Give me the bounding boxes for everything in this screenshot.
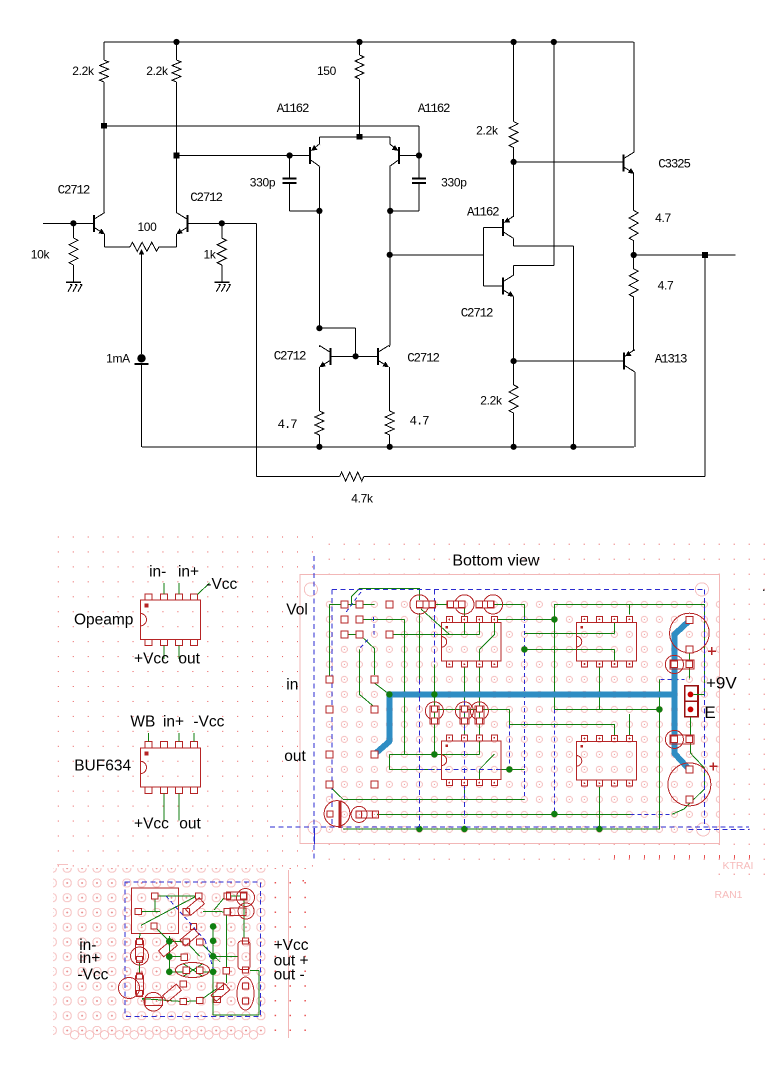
svg-text:C2712: C2712 <box>58 184 90 198</box>
svg-text:4.7: 4.7 <box>278 418 298 432</box>
svg-text:4.7: 4.7 <box>655 211 671 225</box>
svg-text:C2712: C2712 <box>407 352 439 366</box>
svg-text:C3325: C3325 <box>658 158 690 172</box>
svg-text:1mA: 1mA <box>106 352 130 366</box>
svg-text:in+: in+ <box>163 713 184 730</box>
svg-text:out: out <box>179 815 201 832</box>
svg-text:4.7: 4.7 <box>410 415 430 429</box>
svg-text:A1313: A1313 <box>655 353 687 367</box>
svg-text:+Vcc: +Vcc <box>134 650 169 667</box>
svg-text:A1162: A1162 <box>277 102 309 116</box>
svg-text:in: in <box>286 677 298 694</box>
svg-text:out -: out - <box>274 967 305 984</box>
svg-text:2.2k: 2.2k <box>72 64 95 78</box>
svg-text:RAN1: RAN1 <box>715 889 743 901</box>
svg-text:WB: WB <box>130 713 155 730</box>
svg-text:4.7k: 4.7k <box>351 492 374 506</box>
svg-text:330p: 330p <box>441 176 467 190</box>
svg-text:KTRAI: KTRAI <box>723 860 754 872</box>
svg-text:in-: in- <box>149 564 166 581</box>
svg-text:A1162: A1162 <box>467 206 499 220</box>
svg-text:+Vcc: +Vcc <box>134 815 169 832</box>
svg-text:Bottom view: Bottom view <box>452 553 540 570</box>
svg-text:A1162: A1162 <box>418 102 450 116</box>
svg-text:150: 150 <box>317 64 337 78</box>
svg-text:in+: in+ <box>178 564 199 581</box>
svg-text:+Vcc: +Vcc <box>274 937 309 954</box>
svg-text:Vol: Vol <box>286 602 308 619</box>
svg-text:10k: 10k <box>31 248 51 262</box>
svg-text:C2712: C2712 <box>190 191 222 205</box>
svg-text:out: out <box>178 650 200 667</box>
svg-text:2.2k: 2.2k <box>480 394 503 408</box>
svg-text:100: 100 <box>137 220 157 234</box>
svg-text:+9V: +9V <box>706 674 737 693</box>
svg-text:-Vcc: -Vcc <box>206 576 237 593</box>
svg-text:-Vcc: -Vcc <box>193 713 224 730</box>
svg-text:-Vcc: -Vcc <box>77 967 108 984</box>
svg-text:in+: in+ <box>79 950 100 967</box>
svg-text:330p: 330p <box>250 176 276 190</box>
svg-text:C2712: C2712 <box>274 350 306 364</box>
svg-text:2.2k: 2.2k <box>476 124 499 138</box>
svg-text:BUF634: BUF634 <box>74 757 131 774</box>
svg-text:2.2k: 2.2k <box>146 64 169 78</box>
svg-text:out: out <box>284 748 306 765</box>
svg-text:4.7: 4.7 <box>658 279 674 293</box>
svg-text:Opeamp: Opeamp <box>74 611 133 628</box>
svg-text:E: E <box>704 703 715 722</box>
svg-text:C2712: C2712 <box>461 307 493 321</box>
svg-text:1k: 1k <box>203 248 216 262</box>
